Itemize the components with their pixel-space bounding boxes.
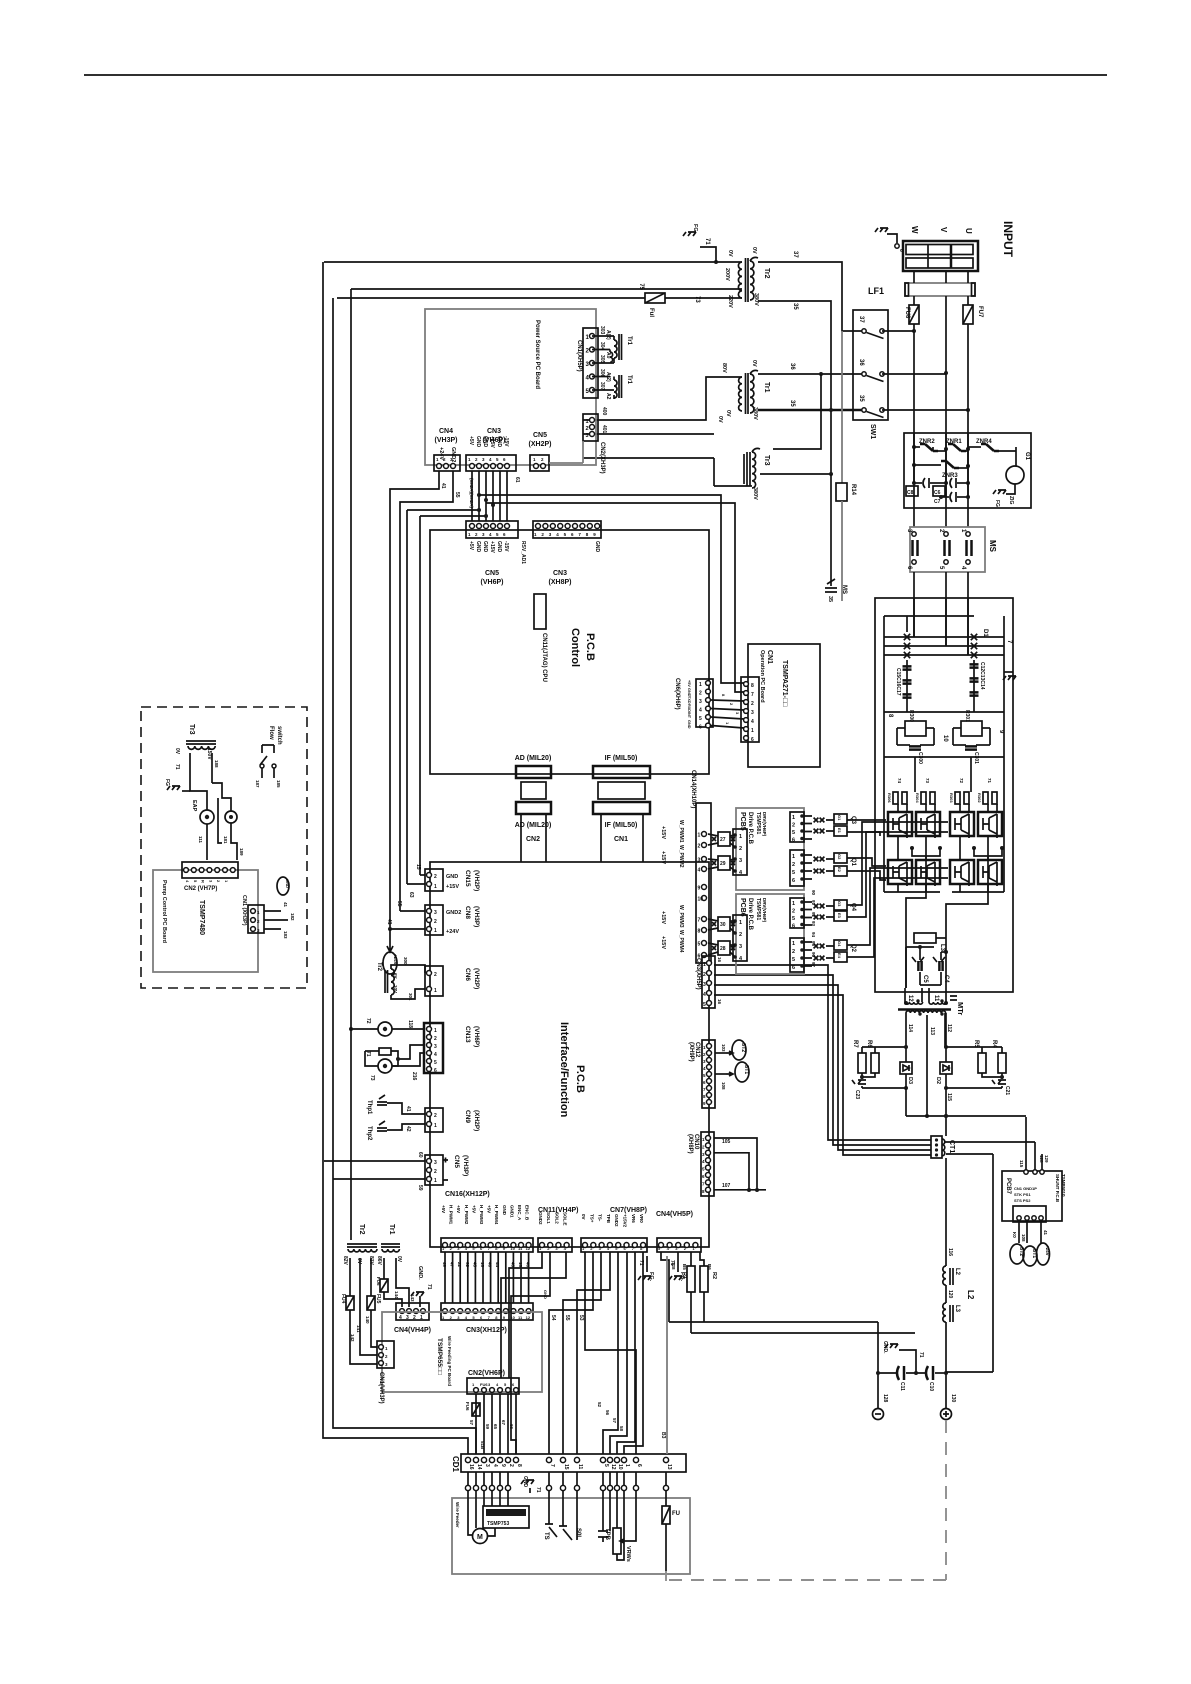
svg-text:71: 71 [704, 238, 710, 245]
wire 103 to ST2 [715, 1052, 726, 1054]
fuse FU feeder [665, 1491, 667, 1506]
wire PCB7 X1 [1025, 1117, 1027, 1170]
svg-text:H_PWM1: H_PWM1 [449, 1205, 454, 1225]
svg-text:C301: C301 [973, 752, 979, 764]
svg-text:41: 41 [283, 902, 288, 908]
svg-text:FU6: FU6 [465, 1402, 470, 1411]
contactor coil MS [825, 579, 837, 592]
snubber left top rail [862, 1046, 906, 1048]
svg-text:FG: FG [692, 224, 698, 232]
wire 304 [592, 349, 610, 351]
svg-text:CN3(XH5P): CN3(XH5P) [695, 958, 701, 990]
svg-text:56: 56 [605, 1410, 610, 1416]
svg-text:C10: C10 [928, 1382, 934, 1391]
svg-text:TPB: TPB [604, 1528, 610, 1541]
svg-text:115: 115 [1019, 1160, 1024, 1168]
svg-text:96: 96 [811, 952, 816, 958]
connector CN1 operation [741, 677, 759, 742]
svg-text:4: 4 [751, 719, 754, 725]
svg-text:AD (MIL20): AD (MIL20) [515, 822, 552, 829]
PCB6 output connector upper [790, 898, 804, 928]
pump capacitor [225, 811, 237, 823]
svg-text:Flow: Flow [268, 726, 274, 740]
CT1 secondary to PCB7 [944, 1141, 1035, 1143]
svg-text:128: 128 [671, 1262, 676, 1270]
svg-text:TS+: TS+ [589, 1214, 594, 1223]
rectifier diodes D1 right [971, 634, 977, 640]
capacitor C8 row [914, 482, 922, 484]
svg-text:GND1: GND1 [509, 1205, 514, 1218]
svg-text:G1: G1 [1024, 452, 1030, 461]
svg-text:+5V: +5V [468, 436, 474, 446]
wire 57b [617, 1252, 635, 1454]
svg-text:0V: 0V [396, 1256, 402, 1263]
wire 380V bus down to MS coil [830, 474, 832, 586]
rectifier bus W [913, 598, 915, 637]
fuse FU5 [370, 1258, 372, 1296]
capacitor C5 [919, 947, 921, 960]
svg-text:5: 5 [603, 1464, 609, 1467]
wire 41 from CN4 [390, 471, 439, 929]
svg-text:+5V: +5V [487, 1205, 492, 1213]
svg-text:15: 15 [415, 864, 421, 870]
IGBT Q4 pair module [978, 812, 1002, 836]
svg-text:6: 6 [792, 838, 795, 844]
svg-text:1: 1 [586, 419, 589, 425]
gate leads Q3 [804, 816, 812, 839]
CD1 lower pin row [465, 1485, 470, 1490]
wire 15 [420, 874, 425, 876]
svg-text:10V: 10V [393, 985, 398, 993]
wire Tr-3 bottom [714, 485, 752, 487]
wires CD1 into feeder [467, 1472, 469, 1485]
svg-text:CN1: CN1 [614, 836, 628, 843]
IGBT gate resistors [893, 792, 898, 804]
svg-text:(XH9P): (XH9P) [688, 1042, 694, 1062]
wire pump tr3 left [190, 753, 196, 791]
svg-text:107: 107 [722, 1183, 731, 1189]
svg-text:U: U [964, 228, 973, 234]
opto couplers CN14 to PCB5 [718, 832, 730, 846]
svg-text:303: 303 [599, 326, 605, 335]
svg-text:R14: R14 [850, 484, 856, 496]
svg-text:44: 44 [495, 1262, 500, 1268]
svg-text:400: 400 [601, 407, 607, 416]
wire +15V distribution [486, 503, 744, 692]
svg-text:Pump Control PC Board: Pump Control PC Board [161, 880, 167, 943]
ground FG top [683, 232, 696, 236]
wire 41b [1040, 1222, 1042, 1243]
IGBT Q1 module [888, 860, 912, 884]
svg-text:71: 71 [638, 1260, 644, 1266]
IGBT Q2 module [950, 860, 974, 884]
svg-text:86V: 86V [376, 1256, 382, 1266]
diode D3 [900, 1062, 912, 1074]
svg-text:1: 1 [792, 901, 795, 907]
ground main DC [1004, 671, 1013, 673]
rectifier diodes D1 left [904, 634, 910, 640]
diode D2 [945, 1013, 947, 1062]
svg-text:E1: E1 [837, 828, 842, 834]
dc bus to IGBT [883, 712, 885, 757]
svg-text:1: 1 [739, 920, 742, 926]
svg-text:CN4(VH4P): CN4(VH4P) [394, 1327, 431, 1334]
gate wires to modules [826, 820, 834, 958]
connector CN3 control (XH8P) [533, 521, 601, 538]
wire 54 TS+ [549, 1252, 593, 1454]
connector CN4(VH4P) wire feed [396, 1303, 429, 1320]
wire 55 from CN4 [400, 471, 453, 911]
wire SOL GND2 b [501, 1252, 566, 1378]
svg-text:12: 12 [907, 995, 913, 1002]
MTr primary left winding [904, 988, 906, 1002]
svg-text:W_PWM1: W_PWM1 [678, 820, 684, 843]
connector CN14(XH10P) [696, 803, 711, 963]
svg-text:GND: GND [502, 1205, 507, 1216]
push button TPB [602, 1524, 604, 1531]
svg-text:5: 5 [698, 942, 701, 948]
twisted pair symbols PCB5 [814, 818, 819, 823]
bus wire left outer [323, 262, 468, 1454]
svg-text:2: 2 [434, 919, 437, 925]
svg-text:95: 95 [811, 941, 816, 947]
svg-text:41: 41 [440, 483, 446, 489]
svg-text:(XH8P): (XH8P) [687, 1134, 693, 1154]
svg-text:63: 63 [408, 892, 414, 898]
connector CN15(VH2P) [425, 869, 443, 891]
wire +24V distribution [479, 495, 744, 683]
svg-text:C6: C6 [934, 490, 941, 496]
svg-text:380V: 380V [752, 407, 758, 420]
torch switch SOL [562, 1522, 564, 1526]
connector CN5 control (VH6P) [466, 521, 518, 538]
wire 114 to node [905, 1088, 907, 1116]
svg-text:GND: GND [543, 1290, 548, 1299]
svg-text:L3: L3 [954, 1305, 960, 1313]
fuse FU6 small [383, 1258, 385, 1279]
current transformer CT1 [931, 1136, 942, 1158]
svg-text:9: 9 [698, 886, 701, 892]
svg-text:3: 3 [406, 1315, 409, 1321]
svg-text:71: 71 [918, 1352, 924, 1358]
svg-text:116: 116 [947, 1248, 953, 1256]
svg-text:301: 301 [408, 993, 413, 1001]
svg-text:59: 59 [485, 1424, 490, 1430]
svg-text:306: 306 [599, 369, 605, 378]
svg-text:2: 2 [434, 1036, 437, 1042]
connector CN6(VH2P) [425, 966, 443, 996]
svg-text:C7: C7 [934, 499, 941, 505]
svg-text:52: 52 [597, 1402, 602, 1408]
thermostat TS [545, 1524, 557, 1537]
wire U MS to rectifier [967, 572, 969, 655]
svg-text:-15V: -15V [503, 436, 509, 447]
svg-text:14: 14 [476, 1464, 482, 1470]
svg-text:CN6(XH6P): CN6(XH6P) [674, 678, 680, 710]
wire Tr-1 primary 80V [583, 377, 742, 420]
svg-text:EAP: EAP [191, 800, 197, 812]
sense wire to plus [946, 1371, 993, 1373]
svg-text:CN3: CN3 [553, 570, 567, 577]
svg-text:W_PWM3: W_PWM3 [678, 905, 684, 928]
wire 63 [407, 883, 425, 885]
svg-text:73: 73 [369, 1075, 375, 1081]
PCB6 input connector [733, 915, 747, 961]
svg-text:Tr2: Tr2 [358, 1224, 365, 1235]
svg-text:42: 42 [405, 1126, 411, 1132]
svg-text:PCB6: PCB6 [739, 898, 746, 917]
connector CN11(JTAG) CPU [534, 594, 546, 629]
svg-text:0V: 0V [174, 748, 180, 755]
svg-text:1: 1 [739, 834, 742, 840]
output terminal plus [941, 1409, 952, 1420]
wire 55 TS- [563, 1252, 601, 1454]
svg-text:45: 45 [510, 1262, 515, 1268]
power source PC board outline [425, 309, 596, 465]
wire U block to LF1 [967, 271, 969, 283]
capacitor C4 [940, 952, 942, 960]
svg-text:80V: 80V [721, 363, 727, 373]
fuse FU8 [913, 296, 915, 305]
svg-text:CN1(VH3P): CN1(VH3P) [378, 1372, 384, 1404]
svg-text:51B: 51B [480, 1441, 485, 1450]
svg-text:SOL.E: SOL.E [563, 1212, 568, 1226]
control PCB outline [430, 530, 709, 774]
svg-text:3: 3 [703, 982, 706, 988]
svg-text:105: 105 [722, 1139, 731, 1145]
pump unit dashed outline [141, 707, 307, 988]
MTr secondary winding [906, 1011, 946, 1013]
svg-text:L3: L3 [939, 944, 945, 952]
svg-text:2: 2 [792, 862, 795, 868]
svg-text:2: 2 [508, 1464, 514, 1467]
svg-text:7: 7 [549, 1464, 555, 1467]
svg-text:4: 4 [698, 868, 701, 874]
GND oval pump [277, 877, 289, 895]
svg-text:G4: G4 [837, 941, 842, 947]
svg-text:0V: 0V [725, 410, 731, 417]
svg-text:72: 72 [959, 778, 964, 784]
svg-text:+5V: +5V [441, 1205, 446, 1213]
contactor MS contact 1 [966, 532, 970, 536]
svg-text:2: 2 [434, 1169, 437, 1175]
inductor L2 on output [943, 1266, 946, 1285]
svg-text:CN5: CN5 [453, 1155, 460, 1168]
capacitor C11 [897, 1366, 904, 1380]
transformer Tr-3 [746, 452, 748, 486]
svg-text:C5: C5 [922, 975, 928, 983]
connector CN1(XH5P) [583, 328, 598, 398]
svg-text:120: 120 [947, 1290, 953, 1299]
svg-text:1: 1 [703, 962, 706, 968]
svg-text:114: 114 [907, 1024, 913, 1032]
svg-text:45: 45 [472, 1262, 477, 1268]
wire phase W down [913, 324, 915, 527]
svg-text:FU4: FU4 [340, 1294, 346, 1304]
connector CN10(XH8P) [701, 1132, 714, 1196]
svg-text:115: 115 [946, 1093, 952, 1101]
input earth terminal [895, 244, 899, 248]
svg-text:R306: R306 [887, 793, 892, 803]
wire feeding PC board outline [382, 1312, 542, 1392]
ground FG pump [182, 790, 190, 792]
svg-text:5: 5 [792, 916, 795, 922]
wire minus bus [669, 1321, 878, 1323]
PCB7 output connector [1013, 1206, 1046, 1222]
svg-text:140: 140 [365, 1316, 370, 1324]
PCB7 input pins [1024, 1170, 1028, 1174]
svg-text:(VH3P): (VH3P) [473, 906, 480, 927]
svg-text:CN15: CN15 [464, 870, 471, 887]
svg-text:+15V: +15V [660, 911, 666, 924]
svg-text:7: 7 [751, 692, 754, 698]
wire K0 [1018, 1222, 1020, 1243]
connector CN5 interface (VH3P) [425, 1155, 443, 1185]
svg-text:220V: 220V [727, 295, 733, 308]
svg-text:A2: A2 [605, 393, 611, 400]
svg-text:3: 3 [434, 1160, 437, 1166]
svg-text:R5: R5 [973, 1040, 979, 1048]
svg-text:DRV(VH6P): DRV(VH6P) [762, 812, 767, 837]
wire 143 [396, 1258, 409, 1307]
potentiometer VRWs [613, 1528, 621, 1554]
svg-text:RSV_AD1: RSV_AD1 [520, 541, 526, 564]
wire PCB7 X2 [1034, 1142, 1036, 1170]
svg-text:Thp1: Thp1 [366, 1100, 372, 1115]
svg-text:MTr: MTr [956, 1002, 965, 1015]
fuse FU7 [967, 296, 969, 305]
svg-text:CN5: CN5 [485, 570, 499, 577]
page top rule [84, 74, 1107, 76]
svg-text:FG: FG [164, 779, 170, 786]
svg-text:401: 401 [601, 425, 607, 434]
interface function PCB outline [430, 862, 709, 1247]
sense winding Tr1 upper [613, 336, 615, 340]
feeder control board [483, 1506, 529, 1528]
svg-text:73: 73 [694, 296, 700, 303]
svg-text:58: 58 [619, 1426, 624, 1432]
svg-text:CN16(XH12P): CN16(XH12P) [445, 1191, 490, 1198]
wire pump tr3 right [211, 753, 213, 783]
svg-text:CN1 (XH3P): CN1 (XH3P) [241, 895, 247, 926]
capacitor C10 [926, 1366, 933, 1380]
svg-text:CN13: CN13 [464, 1026, 471, 1043]
svg-text:0V: 0V [751, 247, 757, 254]
net label ST2 oval [1010, 1244, 1024, 1264]
svg-text:CN8: CN8 [464, 906, 471, 919]
svg-text:GND: GND [475, 436, 481, 448]
svg-text:2: 2 [792, 909, 795, 915]
svg-text:112: 112 [946, 1024, 952, 1032]
svg-text:2: 2 [739, 846, 742, 852]
snubber right top rail [946, 1046, 1002, 1048]
dashed joint to plus cable [665, 1571, 667, 1581]
svg-text:E4: E4 [837, 953, 842, 959]
svg-text:GND: GND [594, 541, 600, 553]
svg-text:92: 92 [465, 1262, 470, 1268]
svg-text:+15V2: +15V2 [623, 1214, 628, 1228]
svg-text:TSMP581: TSMP581 [755, 898, 761, 920]
fan motor FM2 [378, 1059, 392, 1073]
svg-text:2: 2 [792, 949, 795, 955]
pump control PC board outline [153, 870, 258, 972]
svg-text:144: 144 [394, 1291, 399, 1299]
svg-text:Drive P.C.B: Drive P.C.B [747, 898, 753, 931]
svg-text:187: 187 [255, 780, 260, 788]
svg-text:V: V [939, 227, 948, 233]
svg-text:R7: R7 [852, 1040, 858, 1048]
wire 0V to CD1 6 [585, 1252, 636, 1454]
varistor ZNR3 [941, 461, 959, 468]
svg-text:TSMP655□□: TSMP655□□ [436, 1338, 443, 1375]
svg-text:182: 182 [290, 913, 295, 921]
connector CN3(XH12P) wire feed [441, 1303, 533, 1320]
drive board PCB5 outline [736, 808, 804, 890]
svg-text:switch: switch [276, 726, 282, 745]
svg-text:7: 7 [698, 918, 701, 924]
svg-text:R6: R6 [866, 1040, 872, 1048]
wire W block to LF1 [913, 271, 915, 283]
svg-text:Thp2: Thp2 [366, 1126, 372, 1141]
capacitor C15 C16 C17 [906, 616, 908, 632]
CT1 sense wires from CN3(XH5P) [714, 965, 931, 1140]
svg-text:71: 71 [365, 1051, 371, 1057]
svg-text:DRV(VH6P): DRV(VH6P) [762, 898, 767, 923]
svg-text:22: 22 [457, 1262, 462, 1268]
svg-text:C23: C23 [854, 1090, 860, 1099]
svg-text:R4: R4 [991, 1040, 997, 1048]
switch SW1 box [853, 310, 888, 420]
svg-text:+5V: +5V [471, 1205, 476, 1213]
svg-text:D2: D2 [935, 1077, 941, 1084]
svg-text:91: 91 [811, 900, 816, 906]
wire bundle CN3 to control [471, 471, 473, 521]
svg-text:Tr1: Tr1 [763, 382, 770, 393]
svg-text:C8: C8 [907, 490, 914, 496]
svg-text:71: 71 [987, 778, 992, 784]
svg-text:FU7: FU7 [977, 306, 983, 318]
wires thermistors [387, 1103, 425, 1114]
svg-text:61: 61 [514, 477, 520, 483]
svg-text:(VH2P): (VH2P) [473, 870, 480, 891]
wire 71 to FG top [700, 247, 716, 262]
PCB5 output connector upper DRV(VH6P) [790, 812, 804, 842]
svg-text:15: 15 [563, 1464, 569, 1470]
svg-text:R: R [201, 880, 206, 883]
sense winding Tr1 lower [609, 350, 611, 353]
svg-text:2: 2 [703, 972, 706, 978]
svg-text:142: 142 [350, 1334, 355, 1342]
svg-text:130: 130 [950, 1394, 956, 1403]
wire V MS to rectifier [945, 572, 947, 646]
connector CN2(XH3P) [583, 414, 598, 441]
connector CN13(VH6P) [424, 1023, 443, 1073]
wires CN2 to CD1 [475, 1394, 477, 1454]
svg-text:1: 1 [792, 941, 795, 947]
svg-text:E3: E3 [837, 913, 842, 919]
svg-text:A(2): A(2) [605, 372, 611, 382]
svg-text:2: 2 [434, 972, 437, 978]
svg-text:TSMP753: TSMP753 [487, 1521, 509, 1527]
svg-text:10: 10 [942, 735, 948, 742]
svg-text:CN1(XH5P): CN1(XH5P) [576, 340, 582, 372]
svg-text:FU6: FU6 [376, 1277, 381, 1286]
svg-text:380V: 380V [752, 487, 758, 500]
wire V block to LF1 [945, 271, 947, 283]
IGBT Q4 module [950, 812, 974, 836]
svg-text:R2: R2 [711, 1272, 717, 1279]
svg-text:28: 28 [720, 946, 726, 952]
